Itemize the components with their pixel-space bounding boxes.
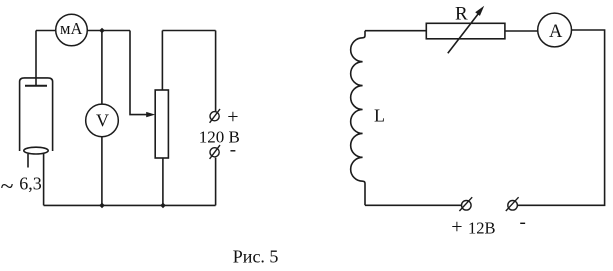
svg-text:+: +: [227, 106, 238, 128]
svg-text:Рис. 5: Рис. 5: [233, 246, 279, 266]
svg-text:R: R: [455, 4, 468, 25]
svg-text:L: L: [374, 106, 385, 126]
svg-text:A: A: [549, 22, 563, 42]
svg-text:-: -: [230, 140, 236, 161]
svg-text:мА: мА: [60, 19, 82, 38]
svg-text:6,3: 6,3: [19, 174, 42, 194]
svg-text:~: ~: [1, 174, 14, 200]
svg-text:+: +: [451, 216, 462, 238]
svg-text:12В: 12В: [468, 219, 496, 238]
svg-text:V: V: [96, 111, 109, 131]
svg-text:-: -: [520, 212, 526, 233]
